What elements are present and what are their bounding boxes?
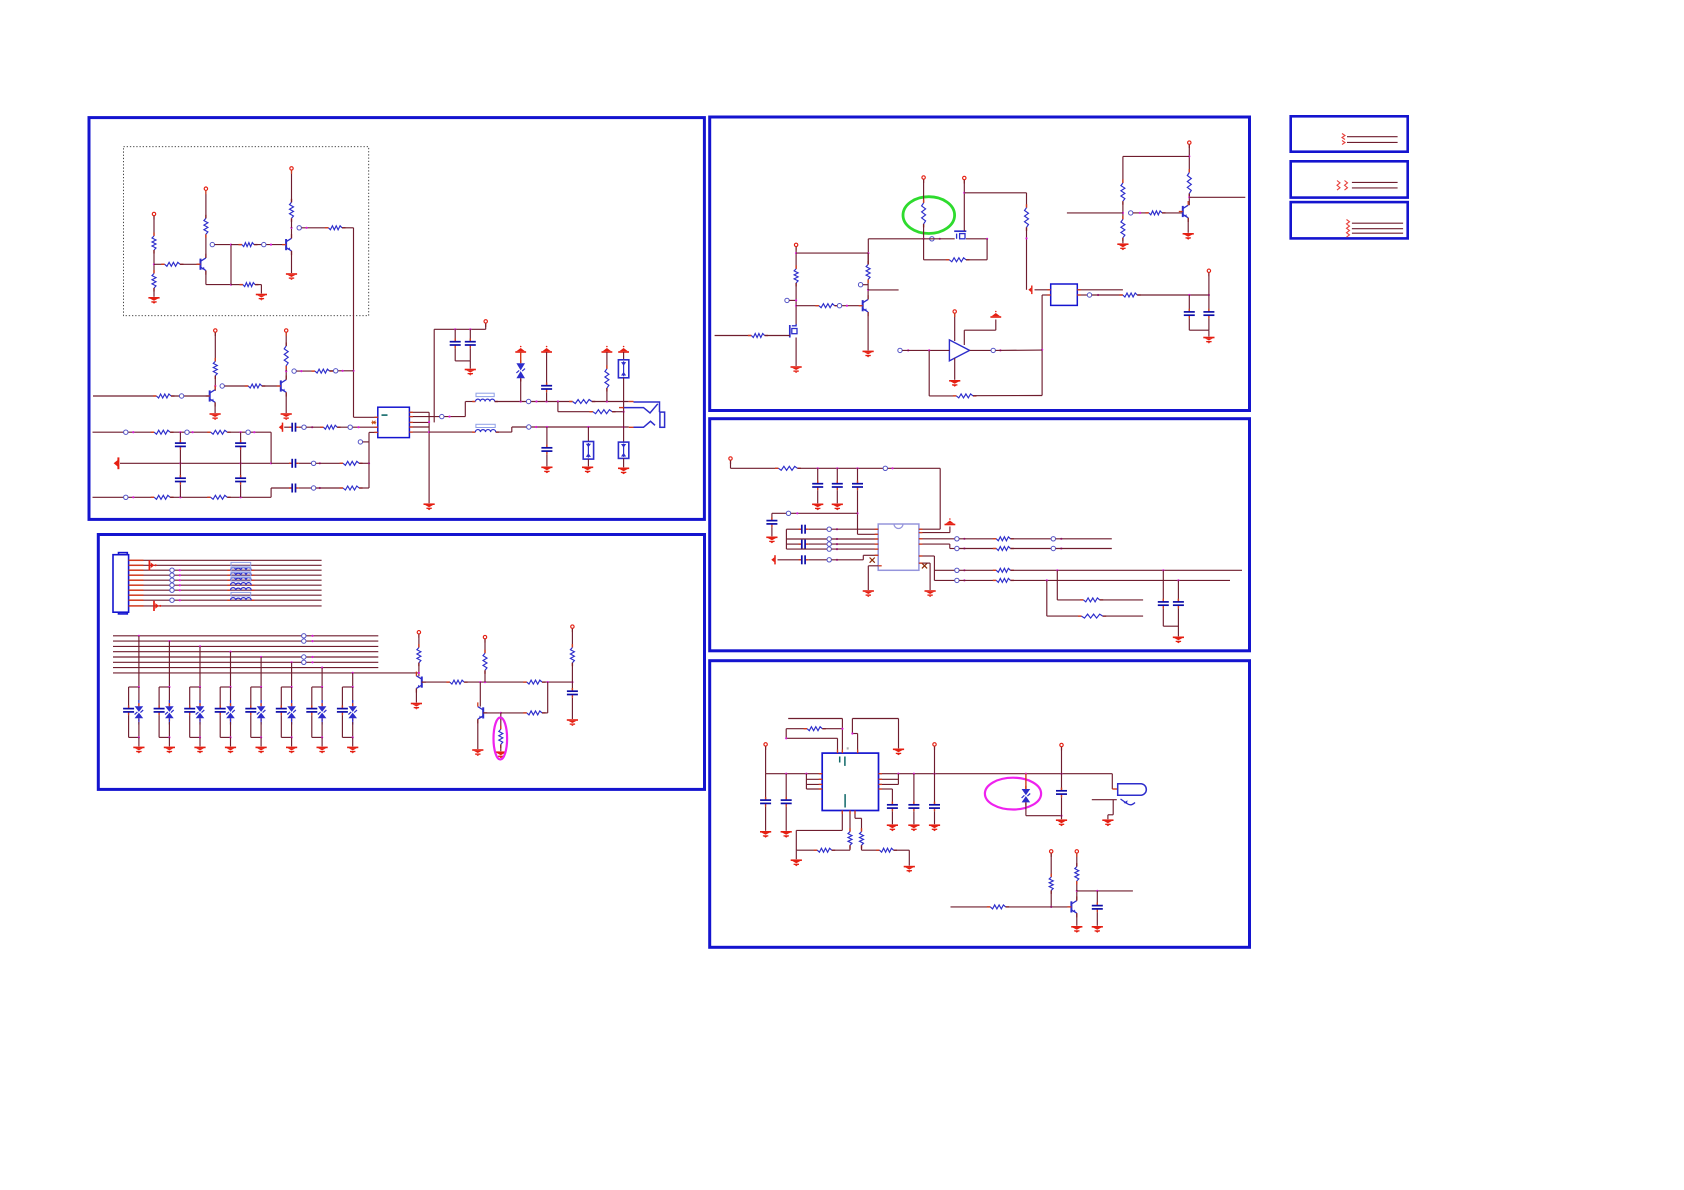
wire xyxy=(352,687,354,703)
TVS diode D xyxy=(318,703,327,721)
junction marker xyxy=(1051,546,1055,550)
node junction xyxy=(999,349,1001,351)
junction marker xyxy=(858,283,862,287)
wire collector xyxy=(205,234,207,258)
node junction xyxy=(179,462,181,464)
wire xyxy=(359,487,369,489)
resistor R7 xyxy=(290,199,294,222)
node junction xyxy=(138,686,140,688)
power node xyxy=(483,635,486,642)
wire bus 4 xyxy=(113,651,378,653)
wire harness 8 xyxy=(144,594,322,596)
wire xyxy=(1112,800,1114,815)
wire pin xyxy=(879,783,899,785)
wire pin xyxy=(841,811,843,831)
junction marker xyxy=(527,425,531,429)
wire xyxy=(469,361,471,369)
wire pin xyxy=(849,811,851,832)
wire xyxy=(868,238,923,240)
wire harness 4 xyxy=(144,574,322,576)
node junction xyxy=(428,421,430,423)
ground xyxy=(133,747,144,753)
wire xyxy=(316,487,343,489)
wire xyxy=(302,227,329,229)
pin stub U5 xyxy=(841,750,843,754)
node junction xyxy=(179,579,181,581)
node junction xyxy=(535,400,537,402)
junction marker xyxy=(786,511,790,515)
pin stub U5 xyxy=(819,778,823,780)
wire xyxy=(501,712,527,714)
wire collector xyxy=(285,371,287,380)
wire xyxy=(153,288,155,297)
wire xyxy=(959,569,996,571)
wire legend xyxy=(1352,187,1398,189)
junction marker xyxy=(262,242,266,246)
wire row B xyxy=(558,411,593,413)
wire output xyxy=(970,349,991,351)
wire collector xyxy=(1188,193,1190,205)
wire pin bus xyxy=(897,774,899,785)
ground xyxy=(256,747,267,753)
wire xyxy=(1162,570,1164,602)
transistor Q1 xyxy=(197,254,206,275)
wire harness 10 xyxy=(144,605,322,607)
wire xyxy=(291,687,293,703)
wire xyxy=(254,244,286,246)
TVS diode D xyxy=(165,703,174,721)
node junction xyxy=(856,467,858,469)
wire collector xyxy=(1076,891,1078,901)
wire pin stub xyxy=(129,589,144,591)
junction marker xyxy=(1087,293,1091,297)
wire xyxy=(963,330,965,345)
wire xyxy=(862,555,864,560)
wire pin xyxy=(879,778,899,780)
capacitor C19 xyxy=(799,525,809,534)
ground xyxy=(812,504,823,510)
junction marker xyxy=(827,537,831,541)
node junction xyxy=(785,773,787,775)
wire xyxy=(795,830,797,850)
wire xyxy=(171,395,209,397)
wire xyxy=(546,427,548,448)
junction marker xyxy=(170,578,174,582)
node junction xyxy=(479,681,481,683)
junction marker xyxy=(311,486,315,490)
wire xyxy=(1041,295,1043,396)
ground xyxy=(164,747,175,753)
node junction xyxy=(418,672,420,674)
node junction xyxy=(963,547,965,549)
wire xyxy=(227,431,271,433)
wire legend xyxy=(1352,228,1403,230)
resistor R19 xyxy=(340,486,363,490)
resistor R36 xyxy=(946,258,970,262)
wire xyxy=(546,352,548,386)
pin stub U2 xyxy=(1047,294,1051,296)
wire rail xyxy=(797,467,940,469)
wire xyxy=(352,737,354,746)
ground xyxy=(929,825,940,831)
wire xyxy=(1177,580,1179,602)
wire emitter xyxy=(1187,218,1189,233)
wire xyxy=(623,458,625,467)
wire xyxy=(950,548,955,550)
resistor R4 xyxy=(204,215,208,238)
wire xyxy=(418,634,420,647)
pin stub U4 xyxy=(875,554,879,556)
node junction xyxy=(1177,579,1179,581)
wire xyxy=(271,462,292,464)
wire xyxy=(464,681,527,683)
pin stub U2 xyxy=(1077,289,1081,291)
wire lead xyxy=(321,700,323,706)
wire xyxy=(1137,294,1209,296)
node junction xyxy=(785,737,787,739)
wire xyxy=(1208,273,1210,295)
ground xyxy=(908,825,919,831)
capacitor C26 xyxy=(887,802,898,812)
wire xyxy=(623,408,625,412)
wire xyxy=(330,370,354,372)
node junction xyxy=(240,496,242,498)
wire xyxy=(230,687,232,703)
wire corner xyxy=(986,239,988,260)
node junction xyxy=(535,426,537,428)
resistor R43 xyxy=(1121,216,1125,241)
junction marker xyxy=(185,430,189,434)
junction marker xyxy=(785,298,789,302)
node junction xyxy=(795,299,797,301)
node junction xyxy=(795,252,797,254)
wire input xyxy=(93,395,157,397)
wire xyxy=(291,170,293,202)
wire xyxy=(1188,318,1190,330)
power node P1 xyxy=(152,212,155,219)
wire xyxy=(822,728,842,730)
ground xyxy=(925,591,936,597)
wire xyxy=(855,817,862,819)
transformer T2 xyxy=(472,424,499,432)
wire xyxy=(959,538,996,540)
junction marker xyxy=(837,304,841,308)
wire long xyxy=(1010,569,1242,571)
pin stub U5 xyxy=(837,750,839,754)
node junction xyxy=(311,635,313,637)
wire xyxy=(311,715,313,737)
junction marker xyxy=(170,573,174,577)
wire corner xyxy=(464,402,466,417)
wire xyxy=(359,462,369,464)
wire pin stub xyxy=(129,584,144,586)
node junction xyxy=(311,640,313,642)
wire xyxy=(520,352,522,363)
power node xyxy=(1060,743,1063,750)
wire xyxy=(291,218,293,228)
node junction xyxy=(1046,579,1048,581)
wire xyxy=(1010,538,1051,540)
node junction xyxy=(469,328,471,330)
wire xyxy=(138,687,140,703)
capacitor C xyxy=(832,481,843,491)
pin stub U5 xyxy=(879,773,883,775)
wire xyxy=(128,715,130,737)
resistor R10 xyxy=(245,384,265,388)
wire xyxy=(321,687,323,703)
node junction xyxy=(229,651,231,653)
annotation ellipse green xyxy=(903,197,955,234)
pin stub U4 xyxy=(875,543,879,545)
ground xyxy=(791,367,802,373)
wire xyxy=(220,686,230,688)
schematic block 1 border xyxy=(89,118,704,520)
wire xyxy=(219,687,221,709)
wire xyxy=(342,227,354,229)
capacitor C8 xyxy=(450,339,461,349)
node junction xyxy=(856,512,858,514)
wire IC pin xyxy=(369,431,378,433)
wire xyxy=(785,774,787,800)
wire xyxy=(929,395,956,397)
wire xyxy=(1188,295,1190,312)
ferrite bead FB xyxy=(227,572,254,580)
wire xyxy=(1050,890,1052,907)
resistor R20 xyxy=(320,425,341,429)
node junction xyxy=(319,462,321,464)
node junction xyxy=(230,284,232,286)
ground xyxy=(465,370,476,376)
transistor Q8 xyxy=(859,295,868,316)
wire xyxy=(255,284,261,286)
node junction xyxy=(1025,773,1027,775)
wire xyxy=(199,687,201,703)
ground xyxy=(887,825,898,831)
node junction xyxy=(179,569,181,571)
wire xyxy=(179,432,181,443)
wire xyxy=(867,566,869,590)
resistor R12 xyxy=(284,343,288,370)
resistor R17 xyxy=(151,495,174,499)
wire long vertical xyxy=(353,228,355,417)
node junction xyxy=(484,681,486,683)
resistor R9 xyxy=(213,358,217,379)
wire main xyxy=(879,773,1113,775)
node junction xyxy=(448,416,450,418)
resistor R48 xyxy=(993,578,1014,582)
power node xyxy=(794,243,797,250)
node junction xyxy=(179,574,181,576)
wire xyxy=(786,737,837,739)
wire vplus xyxy=(954,314,956,342)
wire xyxy=(271,487,292,489)
wire emitter xyxy=(867,312,869,350)
source arrow left xyxy=(279,423,283,432)
wire xyxy=(479,682,481,707)
resistor R2 xyxy=(152,270,156,292)
resistor R34 xyxy=(866,261,870,283)
node junction xyxy=(836,559,838,561)
wire lead xyxy=(260,700,262,706)
node junction xyxy=(1162,569,1164,571)
capacitor C xyxy=(306,705,317,715)
wire xyxy=(230,722,232,737)
wire column xyxy=(623,412,625,442)
wire xyxy=(934,746,936,773)
ground xyxy=(582,467,593,473)
power node xyxy=(933,743,936,750)
power node xyxy=(764,743,767,750)
wire bus 5 xyxy=(113,656,378,658)
node junction xyxy=(321,667,323,669)
junction marker xyxy=(991,348,995,352)
wire vminus xyxy=(954,358,956,380)
diode pack D2 xyxy=(618,360,628,378)
power arrow xyxy=(618,346,629,352)
schematic block 5 border xyxy=(710,661,1250,948)
wire xyxy=(765,746,767,773)
wire harness 5 xyxy=(144,579,322,581)
TVS diode D xyxy=(348,703,357,721)
pin stub U1 xyxy=(409,426,413,428)
capacitor C xyxy=(812,481,823,491)
IC U4 xyxy=(878,524,919,570)
junction marker xyxy=(348,425,352,429)
wire xyxy=(836,490,838,503)
junction marker xyxy=(246,430,250,434)
wire main xyxy=(766,773,823,775)
TVS diode D xyxy=(257,703,266,721)
node junction xyxy=(836,548,838,550)
wire xyxy=(963,180,965,231)
wire stub xyxy=(1112,788,1117,790)
wire column xyxy=(291,662,293,687)
resistor R51 xyxy=(804,727,826,731)
diode pack D4 xyxy=(618,442,628,458)
wire xyxy=(128,687,130,709)
ground xyxy=(863,591,874,597)
capacitor C27 xyxy=(1056,788,1067,798)
ground xyxy=(286,747,297,753)
source arrow left xyxy=(114,457,119,469)
wire xyxy=(765,774,767,800)
resistor R39 xyxy=(953,394,977,398)
wire corner xyxy=(270,488,272,497)
node junction xyxy=(319,487,321,489)
wire xyxy=(891,789,893,805)
wire lead xyxy=(199,700,201,706)
wire xyxy=(1056,548,1112,550)
pin stub U1 xyxy=(374,426,378,428)
junction marker xyxy=(827,547,831,551)
wire xyxy=(262,385,280,387)
wire xyxy=(592,401,629,403)
node junction xyxy=(260,656,262,658)
wire base xyxy=(483,712,501,714)
ground xyxy=(1203,338,1214,344)
wire xyxy=(170,496,211,498)
capacitor C xyxy=(781,797,792,807)
node junction xyxy=(1208,294,1210,296)
wire column xyxy=(321,668,323,687)
wire xyxy=(154,263,165,265)
node junction xyxy=(291,661,293,663)
wire xyxy=(1061,747,1063,791)
wire xyxy=(867,239,869,265)
wire row xyxy=(786,528,801,530)
ground xyxy=(893,749,904,755)
wire rail2 xyxy=(93,496,155,498)
wire xyxy=(284,426,292,428)
wire column xyxy=(168,641,170,687)
wire xyxy=(158,715,160,737)
pin stub U5 xyxy=(879,783,883,785)
node junction xyxy=(240,462,242,464)
wire xyxy=(485,323,487,329)
wire xyxy=(789,299,796,301)
wire IC pin xyxy=(409,416,429,418)
node junction xyxy=(352,736,354,738)
node junction xyxy=(817,467,819,469)
node junction xyxy=(253,431,255,433)
capacitor C11 xyxy=(541,445,552,455)
source arrow right xyxy=(154,601,161,611)
wire xyxy=(1122,201,1124,219)
node junction xyxy=(311,661,313,663)
wire xyxy=(520,378,522,401)
junction marker xyxy=(827,558,831,562)
junction marker xyxy=(1129,211,1133,215)
resistor R8 xyxy=(325,226,346,230)
wire xyxy=(1076,881,1078,891)
power node xyxy=(571,625,574,632)
ground xyxy=(1102,820,1113,826)
wire IC pin xyxy=(858,533,879,535)
wire xyxy=(342,736,352,738)
ground xyxy=(618,468,629,474)
wire xyxy=(219,715,221,737)
wire bus 6 xyxy=(113,661,378,663)
pin stub U5 xyxy=(879,788,883,790)
wire xyxy=(832,849,850,851)
wire xyxy=(296,370,315,372)
IC U5 xyxy=(822,747,878,810)
wire xyxy=(138,737,140,746)
node junction xyxy=(291,736,293,738)
wire xyxy=(281,686,291,688)
capacitor C4 xyxy=(175,475,186,485)
wire xyxy=(913,811,915,824)
wire xyxy=(1108,814,1113,816)
wire row R2 xyxy=(919,532,950,534)
ground xyxy=(210,414,221,420)
ground xyxy=(949,381,960,387)
wire xyxy=(1122,238,1124,244)
TVS diode D1 xyxy=(516,360,525,382)
wire emitter xyxy=(285,392,287,413)
node junction xyxy=(587,426,589,428)
wire xyxy=(785,729,787,739)
wire xyxy=(772,512,858,514)
node junction xyxy=(986,238,988,240)
capacitor C1 xyxy=(289,459,299,468)
wire jack stub xyxy=(629,401,634,403)
wire xyxy=(786,728,807,730)
wire xyxy=(959,548,996,550)
wire xyxy=(291,737,293,746)
wire xyxy=(817,490,819,503)
wire xyxy=(199,737,201,746)
